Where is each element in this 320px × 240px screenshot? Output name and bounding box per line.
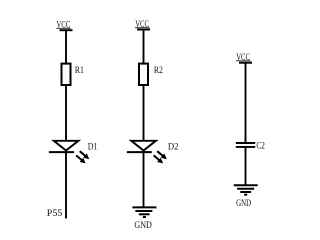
wire D2 to ground <box>143 150 145 207</box>
svg-text:GND: GND <box>236 199 251 209</box>
resistor R1 <box>62 64 71 85</box>
svg-text:VCC: VCC <box>57 20 71 30</box>
power VCC (right branch) <box>236 53 252 63</box>
svg-text:GND: GND <box>134 221 152 231</box>
LED D2 <box>127 141 167 164</box>
wire D1 to P55 <box>65 150 67 219</box>
svg-text:C2: C2 <box>256 142 265 152</box>
wire R1 to D1 <box>65 86 67 141</box>
ground (right branch) <box>234 185 258 194</box>
wire VCC to R1 (left) <box>65 31 67 64</box>
resistor R2 <box>139 64 148 85</box>
power VCC (middle branch) <box>135 20 150 30</box>
svg-text:D1: D1 <box>88 143 98 153</box>
svg-text:VCC: VCC <box>236 53 250 63</box>
ground (middle branch) <box>132 207 156 217</box>
svg-text:D2: D2 <box>168 143 179 153</box>
power VCC (left branch) <box>56 20 72 30</box>
wire C2 to ground <box>245 147 247 185</box>
svg-text:R1: R1 <box>75 66 84 76</box>
wire R2 to D2 <box>143 86 145 141</box>
wire VCC to R2 <box>143 30 145 64</box>
svg-text:VCC: VCC <box>135 20 149 30</box>
capacitor C2 <box>236 143 255 147</box>
LED D1 <box>49 141 89 164</box>
svg-text:P55: P55 <box>47 209 63 219</box>
svg-text:R2: R2 <box>154 66 163 76</box>
wire VCC to C2 <box>245 63 247 143</box>
